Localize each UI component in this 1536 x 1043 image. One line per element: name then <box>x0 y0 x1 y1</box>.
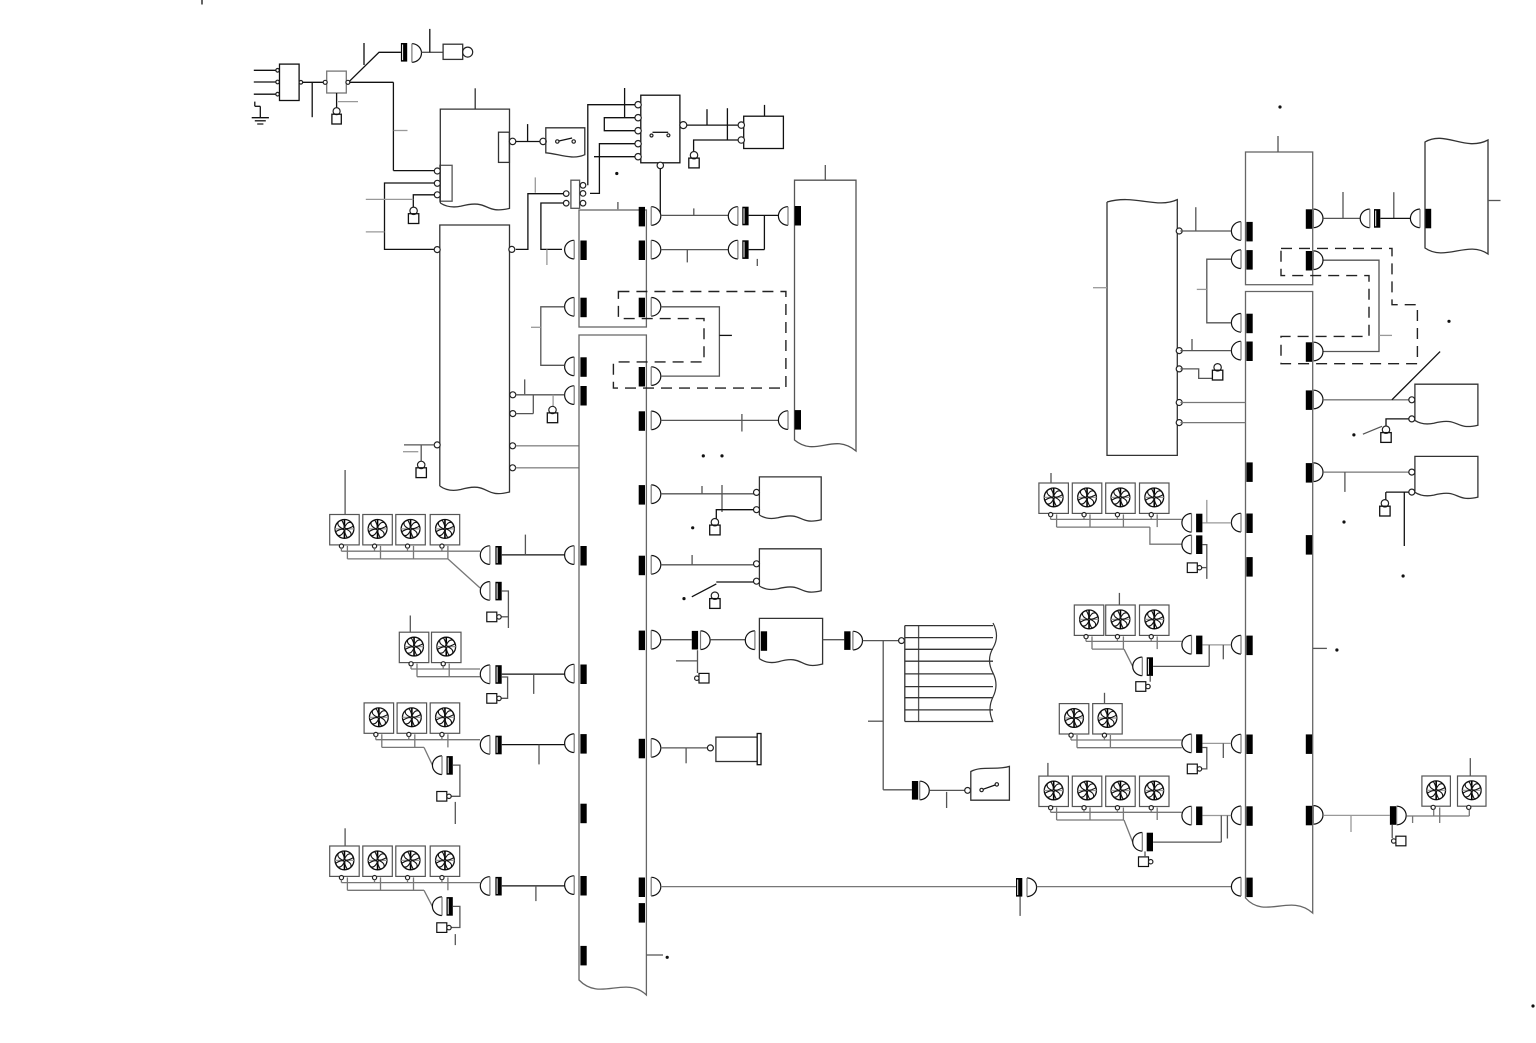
connector <box>1231 806 1252 826</box>
wire <box>694 140 739 152</box>
wire stub <box>552 395 554 407</box>
wire stub <box>409 616 411 633</box>
wire <box>1202 545 1207 579</box>
junction block U1 <box>323 71 350 93</box>
connector <box>565 386 587 406</box>
splice tick <box>580 804 586 824</box>
wire stub <box>344 828 346 846</box>
connector D2 <box>728 207 738 226</box>
wire <box>541 307 565 366</box>
module A3 <box>738 105 783 149</box>
terminal lug TB4 <box>689 152 699 168</box>
wire <box>516 124 540 141</box>
wire <box>1386 492 1409 546</box>
connector <box>1231 877 1252 897</box>
wire <box>349 82 434 170</box>
splice SP11 <box>495 736 501 755</box>
pin <box>510 443 516 449</box>
splice tick <box>1306 535 1312 555</box>
wire stub <box>546 249 548 265</box>
connector D9 <box>920 781 930 800</box>
wire <box>1203 645 1232 659</box>
connector J1 <box>280 64 303 100</box>
wire stub <box>1104 693 1106 704</box>
connector <box>639 630 661 650</box>
fan bank F23-F26 <box>1039 776 1169 810</box>
splice SP15 <box>1374 209 1380 228</box>
connector <box>639 298 661 318</box>
splice tick <box>639 903 645 923</box>
wire <box>692 582 754 597</box>
wire <box>863 638 905 790</box>
wire stub <box>1019 897 1021 916</box>
connector <box>639 739 661 759</box>
wire <box>303 81 324 83</box>
equipment box A7 <box>1107 200 1182 456</box>
splice tick <box>1246 462 1252 482</box>
wire <box>661 414 778 432</box>
wire <box>1180 339 1231 351</box>
connector plug PL10 <box>1392 836 1406 846</box>
wire <box>1203 743 1232 758</box>
connector <box>639 367 661 387</box>
wire <box>424 747 432 765</box>
wire <box>676 650 698 673</box>
node dot <box>1342 520 1345 523</box>
connector D17 <box>432 897 442 916</box>
connector D8 <box>853 631 863 650</box>
wire stub <box>394 130 408 132</box>
wire harness <box>411 664 480 677</box>
node dot <box>1447 320 1450 323</box>
wire <box>661 555 756 565</box>
connector D14 <box>480 736 490 755</box>
equipment box A4 <box>754 477 822 521</box>
wire <box>1144 851 1146 857</box>
wire <box>502 745 565 765</box>
connector D28 <box>1133 833 1143 852</box>
switch S1 <box>546 128 585 157</box>
wire <box>451 906 460 927</box>
wire <box>1203 500 1232 523</box>
connector D6 <box>701 631 711 650</box>
wire <box>516 467 579 469</box>
splice SP2 <box>742 207 748 226</box>
splice SP10 <box>495 665 501 684</box>
equipment box A1 <box>440 88 509 210</box>
wire <box>749 215 765 266</box>
wire <box>604 118 635 131</box>
wire <box>516 194 564 250</box>
wire stub <box>824 165 826 180</box>
wire stub <box>646 954 663 956</box>
connector <box>565 664 587 684</box>
wire stub <box>454 934 456 945</box>
connector <box>639 877 661 897</box>
connector <box>1231 222 1252 242</box>
pin <box>510 392 516 398</box>
connector <box>565 240 587 260</box>
wire stub <box>531 326 541 328</box>
connector J1 input wires <box>254 69 280 96</box>
wire <box>710 639 745 641</box>
splice SP9 <box>495 582 501 601</box>
splice SP13 <box>495 877 501 896</box>
wire <box>413 195 434 207</box>
wire <box>404 445 434 461</box>
wire <box>1124 649 1133 666</box>
connector plug PL3 <box>487 694 501 704</box>
wire <box>661 307 720 376</box>
wire stub <box>524 379 526 394</box>
bus B1 upper section <box>579 210 646 327</box>
wire <box>1180 402 1245 404</box>
splice tick <box>1246 557 1252 577</box>
pin <box>510 411 516 417</box>
bus B3 upper section <box>1246 152 1313 285</box>
splice SP3 <box>742 240 748 259</box>
wire <box>336 93 338 108</box>
connector <box>565 298 587 318</box>
splice tick <box>1306 734 1312 754</box>
wire stub <box>1488 200 1501 202</box>
terminal lug TB6 <box>710 519 720 535</box>
splice SP6 <box>912 781 918 800</box>
splice SP12 <box>447 756 453 775</box>
connector plug PL1 <box>695 673 709 683</box>
node dot <box>702 454 724 457</box>
connector plug PL9 <box>1139 857 1153 867</box>
wire <box>883 789 912 791</box>
wire <box>661 208 729 215</box>
wire stub <box>1093 287 1107 289</box>
connector <box>639 240 661 260</box>
terminal lug TB3 <box>416 461 426 477</box>
wire <box>661 639 692 641</box>
shield boundary (dashed) <box>613 292 786 389</box>
splice SP8 <box>495 546 501 565</box>
connector plug PL7 <box>1136 682 1150 692</box>
connector D15 <box>432 756 442 775</box>
horn H1 <box>443 44 473 59</box>
wire <box>659 169 661 216</box>
connector D18 <box>1306 251 1323 271</box>
node dot <box>691 526 694 529</box>
wire <box>1153 645 1209 667</box>
wire <box>1037 886 1232 888</box>
wire <box>1149 676 1151 682</box>
fan bank F1-F4 <box>330 515 460 549</box>
node dot <box>666 956 669 959</box>
splice SP16 <box>1196 514 1202 533</box>
node dot <box>1531 1004 1534 1007</box>
connector D25 <box>1133 657 1143 676</box>
wire <box>1124 820 1133 842</box>
wire <box>716 510 753 519</box>
connector <box>1231 734 1252 754</box>
connector D20 <box>1360 209 1370 228</box>
splice SP22 <box>1147 833 1153 852</box>
wire <box>1150 527 1182 544</box>
equipment box A2 <box>440 225 510 494</box>
connector D21 <box>1410 209 1431 229</box>
wire <box>1180 207 1231 231</box>
splice SP5 <box>844 631 850 650</box>
wire harness <box>1051 808 1182 821</box>
wire stub <box>403 451 418 453</box>
connector D16 <box>480 877 490 896</box>
wire <box>501 677 507 698</box>
wire <box>422 29 444 52</box>
connector D19 <box>1306 342 1323 362</box>
wire stub <box>363 43 365 65</box>
pin <box>434 247 440 253</box>
terminal lug TB8 <box>1212 364 1222 380</box>
wire stub <box>366 231 385 233</box>
wire stub <box>366 198 414 200</box>
equipment box A8 <box>1425 138 1488 254</box>
ground <box>252 102 269 124</box>
pin <box>509 246 515 252</box>
connector <box>1231 513 1252 533</box>
switch S1 pin <box>540 138 546 144</box>
splice SP21 <box>1196 807 1202 826</box>
wire stub <box>706 109 708 125</box>
wire <box>424 890 432 906</box>
connector <box>639 556 661 576</box>
wire <box>594 156 635 158</box>
connector plug PL2 <box>487 612 501 622</box>
splice tick <box>580 946 586 966</box>
equipment box A5 <box>754 549 822 592</box>
connector D22 <box>1182 514 1192 533</box>
wire stub <box>617 202 619 209</box>
wire <box>660 745 713 763</box>
connector D13 <box>480 665 490 684</box>
equipment box A10 <box>1409 456 1478 498</box>
fan bank F27-F28 <box>1422 776 1486 810</box>
wire <box>1207 259 1231 323</box>
wire <box>1180 369 1212 379</box>
wire <box>661 886 1016 888</box>
splice SP7 <box>1016 878 1022 897</box>
wire <box>385 183 435 249</box>
wire stub <box>1379 334 1392 336</box>
wire harness <box>376 734 480 747</box>
wire <box>451 765 460 796</box>
switch S2 <box>971 766 1010 800</box>
antenna lead <box>1392 352 1440 400</box>
wire stub <box>1047 763 1049 776</box>
connector <box>639 411 661 431</box>
splice SP23 <box>1390 806 1396 825</box>
wire <box>1323 399 1409 401</box>
connector D4 <box>728 240 738 259</box>
wire <box>1323 815 1390 832</box>
connector D3 <box>778 206 801 226</box>
fan bank F10-F13 <box>330 846 460 880</box>
node dot <box>1335 648 1338 651</box>
wire <box>1180 422 1245 424</box>
wire harness <box>1086 636 1182 649</box>
wire stub <box>624 88 626 118</box>
splice SP18 <box>1196 636 1202 655</box>
connector D5 <box>778 410 801 430</box>
wire stub <box>311 82 313 117</box>
connector <box>565 546 587 566</box>
terminal lug TB5 <box>547 406 557 422</box>
connector <box>1231 341 1252 361</box>
relay coil L1 <box>716 734 761 765</box>
terminal lug TB2 <box>408 207 418 223</box>
wire <box>1323 260 1379 351</box>
wire harness <box>1071 735 1182 748</box>
node dot <box>1352 433 1355 436</box>
connector D29 <box>1397 806 1407 825</box>
wire stub <box>726 108 728 140</box>
equipment box A6 <box>759 618 822 665</box>
terminal lug TB7 <box>710 592 720 608</box>
fan bank F5-F6 <box>399 632 461 666</box>
wire <box>661 485 756 512</box>
wire <box>590 144 635 194</box>
wire stub <box>719 334 732 336</box>
connector D27 <box>1182 806 1192 825</box>
splice SP17 <box>1196 535 1202 554</box>
connector D10 <box>1027 878 1037 897</box>
fan bank F7-F9 <box>364 703 460 737</box>
terminal lug TB9 <box>1381 426 1391 442</box>
wire stub <box>1363 426 1382 434</box>
terminal strip TS1 <box>905 623 997 722</box>
connector D23 <box>1182 535 1192 554</box>
wire <box>349 52 401 81</box>
connector <box>1231 635 1252 655</box>
wire <box>541 203 564 249</box>
wire stub <box>1277 136 1279 152</box>
connector <box>565 357 587 377</box>
connector plug PL5 <box>437 923 451 933</box>
wire stub <box>1197 288 1207 290</box>
relay K1 <box>635 95 687 168</box>
node dot <box>615 172 618 175</box>
wire <box>823 639 845 641</box>
wire harness <box>1051 514 1182 527</box>
connector D7 <box>745 631 767 651</box>
connector <box>1306 390 1323 410</box>
wire <box>1380 217 1410 219</box>
wire <box>448 559 480 588</box>
terminal lug TB1 <box>332 108 341 124</box>
connector J2 <box>434 165 452 201</box>
wire <box>1203 816 1232 839</box>
pin <box>434 442 440 448</box>
splice SP4 <box>692 631 698 650</box>
wire <box>1202 748 1207 769</box>
node dot <box>1278 105 1281 108</box>
connector <box>639 207 661 227</box>
bus B2 <box>795 180 857 451</box>
equipment box A9 <box>1409 384 1478 426</box>
wire <box>661 250 729 263</box>
wire <box>687 124 738 126</box>
node dot <box>682 597 685 600</box>
wire stub <box>344 470 346 515</box>
terminal lug TB10 <box>1380 500 1390 516</box>
connector tab <box>499 132 516 162</box>
connector plug PL6 <box>1187 563 1201 573</box>
wire stub <box>1050 473 1052 483</box>
wire <box>502 674 565 694</box>
connector <box>565 876 587 896</box>
wire harness <box>1406 808 1469 824</box>
wire stub <box>534 177 536 192</box>
splice SP19 <box>1147 657 1153 676</box>
bus B1 lower section <box>579 335 646 995</box>
bus B3 lower section <box>1246 292 1313 914</box>
node dot <box>1402 574 1405 577</box>
connector P2 <box>563 180 585 208</box>
fan bank F21-F22 <box>1059 704 1122 738</box>
fan bank F18-F20 <box>1074 605 1169 639</box>
wire <box>502 886 565 901</box>
connector <box>1306 209 1323 229</box>
wire <box>1153 816 1221 843</box>
wire <box>588 105 635 186</box>
connector plug PL4 <box>437 792 451 802</box>
wire <box>1391 825 1393 838</box>
wire <box>1323 192 1394 218</box>
wire harness <box>341 877 480 890</box>
connector <box>1231 250 1252 270</box>
wire stub <box>1118 593 1120 605</box>
pin <box>510 465 516 471</box>
connector D1 <box>412 44 422 63</box>
connector D24 <box>1182 635 1192 654</box>
wire <box>516 395 565 414</box>
wire <box>501 591 508 628</box>
fan bank F14-F17 <box>1039 483 1169 517</box>
wire <box>1323 472 1409 492</box>
connector D12 <box>480 582 490 601</box>
wire <box>1386 419 1409 426</box>
splice SP1 <box>401 43 407 62</box>
wire stub <box>1469 758 1471 776</box>
connector <box>1306 806 1323 826</box>
splice SP20 <box>1196 734 1202 753</box>
connector <box>565 734 587 754</box>
connector plug PL8 <box>1187 764 1201 774</box>
page mark <box>201 0 203 5</box>
connector D11 <box>480 546 490 565</box>
connector <box>639 485 661 505</box>
wire stub <box>454 802 456 824</box>
wire <box>749 214 779 216</box>
connector <box>1231 314 1252 334</box>
wire <box>930 788 971 809</box>
wire harness <box>341 546 480 559</box>
connector <box>1306 463 1323 483</box>
wire stub <box>1313 647 1327 649</box>
shield boundary (dashed) <box>1281 248 1417 363</box>
connector D26 <box>1182 734 1192 753</box>
wire <box>502 535 565 555</box>
splice SP14 <box>447 897 453 916</box>
wire stub <box>338 101 358 103</box>
wire <box>516 445 579 447</box>
